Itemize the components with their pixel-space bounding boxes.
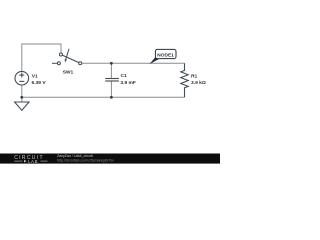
switch SW1 terminal right bbox=[79, 62, 82, 65]
ground bbox=[15, 102, 29, 110]
svg-text:http://circuitlab.com/c/5cmark: http://circuitlab.com/c/5cmarkqd97hv bbox=[57, 158, 114, 162]
node flag NODE1 box bbox=[155, 49, 176, 58]
resistor R1 bbox=[181, 63, 188, 97]
wire capacitor bottom lead bbox=[110, 82, 112, 98]
switch SW1 terminal top bbox=[59, 53, 62, 56]
wire bottom rail bbox=[22, 96, 185, 98]
switch SW1 left throw stub bbox=[52, 62, 57, 64]
svg-text:6.39 V: 6.39 V bbox=[32, 80, 47, 86]
svg-text:R1: R1 bbox=[191, 73, 198, 79]
node flag NODE1 pointer bbox=[149, 57, 159, 64]
junction dot cap bottom bbox=[110, 96, 113, 99]
footer bar bbox=[0, 154, 220, 164]
footer logo LAB line left bbox=[14, 160, 22, 162]
voltage source V1 bbox=[15, 71, 29, 85]
svg-text:V1: V1 bbox=[32, 73, 38, 79]
svg-text:C1: C1 bbox=[121, 73, 128, 79]
svg-text:NODE1: NODE1 bbox=[157, 53, 174, 59]
wire V1 bottom to ground bbox=[21, 85, 23, 102]
wire V1 top to switch top terminal bbox=[22, 44, 61, 72]
footer logo LAB glyph bbox=[24, 160, 27, 163]
wire switch right terminal to resistor top (node rail) bbox=[82, 62, 185, 64]
svg-text:3.9 kΩ: 3.9 kΩ bbox=[191, 80, 206, 86]
footer logo LAB line right bbox=[41, 160, 48, 162]
svg-text:3.9 mF: 3.9 mF bbox=[120, 80, 136, 86]
capacitor C1 bbox=[105, 79, 119, 82]
junction dot ground rail bbox=[20, 96, 23, 99]
switch SW1 toggle arrow bbox=[66, 49, 69, 60]
switch SW1 terminal left bbox=[57, 62, 60, 65]
wire capacitor top lead bbox=[110, 63, 112, 78]
switch SW1 arm bbox=[61, 55, 80, 64]
svg-text:SW1: SW1 bbox=[63, 70, 74, 76]
junction dot cap top bbox=[110, 62, 113, 65]
svg-text:LAB: LAB bbox=[28, 159, 38, 164]
